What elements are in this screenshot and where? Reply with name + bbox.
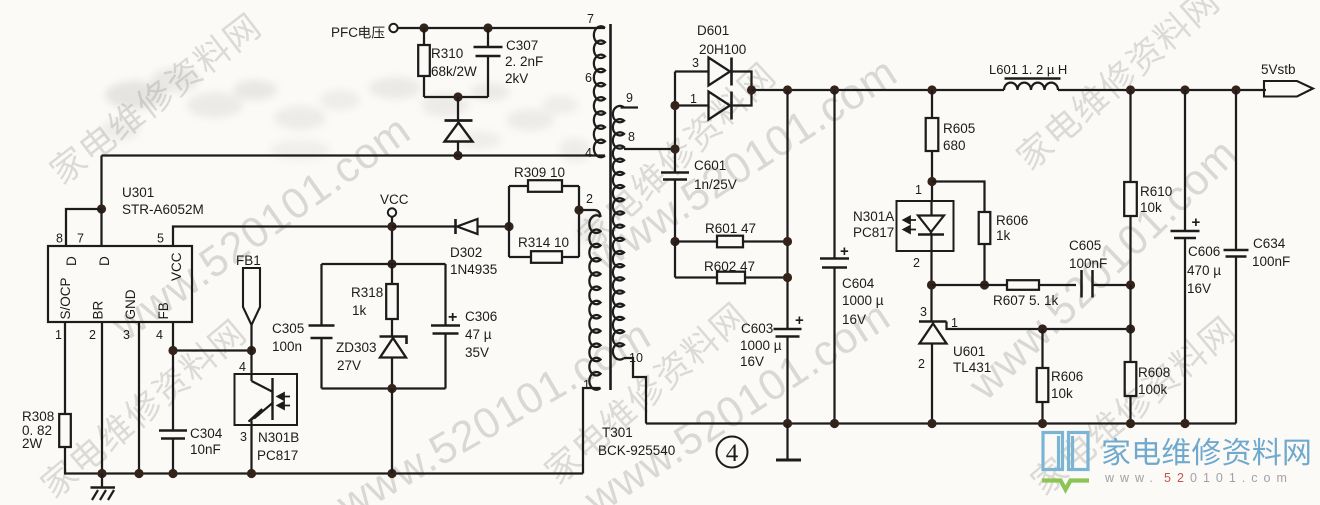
svg-text:R309 10: R309 10 [514, 165, 565, 180]
svg-text:1n/25V: 1n/25V [694, 177, 737, 192]
secondary ground rail [646, 422, 1236, 424]
svg-text:R310: R310 [431, 46, 463, 61]
svg-text:C605: C605 [1069, 238, 1101, 253]
svg-text:16V: 16V [842, 312, 866, 327]
wire network bottom rail [322, 387, 446, 389]
node junction C304 on ground rail [168, 469, 177, 478]
svg-text:R602 47: R602 47 [704, 259, 755, 274]
wire FB node to opto [173, 349, 252, 351]
svg-text:+: + [1192, 214, 1201, 231]
node junction R310 top [419, 23, 428, 32]
svg-text:1N4935: 1N4935 [450, 262, 497, 277]
svg-text:ZD303: ZD303 [336, 340, 377, 355]
logo site name [1103, 438, 1310, 466]
ground (primary, chassis) [101, 474, 103, 488]
resistor R606 10k (lower divider) [1041, 329, 1043, 368]
node junction D601 pin1 [670, 101, 679, 110]
svg-text:10nF: 10nF [190, 442, 221, 457]
svg-text:R606: R606 [996, 213, 1028, 228]
aux winding 2-1 [589, 215, 600, 389]
svg-text:0101.com: 0101.com [1190, 471, 1293, 485]
watermarks (decorative, faint) [46, 10, 263, 187]
svg-text:68k/2W: 68k/2W [431, 64, 477, 79]
svg-text:STR-A6052M: STR-A6052M [122, 202, 204, 217]
svg-text:D: D [97, 256, 112, 266]
svg-text:5Vstb: 5Vstb [1261, 62, 1296, 77]
svg-text:C307: C307 [506, 38, 538, 53]
resistor R308 0.82 2W [59, 414, 71, 447]
svg-text:100nF: 100nF [1252, 254, 1290, 269]
wire C604 branch [830, 85, 839, 94]
wire C603 branch [783, 85, 792, 94]
pin 10 lead [624, 358, 646, 424]
transistor N301B PC817 opto output [250, 351, 252, 382]
resistor R606 1k [932, 182, 985, 213]
capacitor C601 1n/25V [661, 171, 689, 174]
node junction pin7/pin8 [97, 204, 106, 213]
svg-text:7: 7 [77, 232, 84, 246]
svg-text:9: 9 [626, 91, 633, 105]
capacitor C305 100n [320, 264, 322, 326]
wire pin4 FB lead [172, 322, 174, 431]
node junction zener leg on ground rail [387, 469, 396, 478]
wire network top rail [322, 263, 446, 265]
svg-text:1k: 1k [352, 303, 367, 318]
capacitor C604 1000u 16V [820, 257, 849, 260]
svg-text:10k: 10k [1140, 200, 1162, 215]
node junction ref/R608 [1126, 324, 1135, 333]
node junction C307 top [483, 23, 492, 32]
svg-text:www.: www. [1104, 471, 1159, 485]
wire PFC rail to transformer pin 7 [398, 27, 605, 29]
wire R601 left lead [675, 240, 717, 242]
wire pin1 lead [64, 322, 66, 414]
resistor R607 5.1k [1007, 280, 1039, 290]
svg-text:D601: D601 [697, 23, 729, 38]
svg-text:R314 10: R314 10 [518, 235, 569, 250]
svg-text:PFC: PFC [331, 25, 358, 40]
resistor R605 680 [927, 85, 936, 94]
node junction R601 right [783, 237, 792, 246]
svg-text:R605: R605 [943, 121, 975, 136]
svg-text:4: 4 [156, 328, 163, 342]
wire 5V rail [752, 89, 1005, 91]
node junction R601 left [670, 237, 679, 246]
svg-text:U601: U601 [953, 344, 985, 359]
svg-text:27V: 27V [337, 358, 361, 373]
svg-text:U301: U301 [122, 185, 154, 200]
svg-text:VCC: VCC [380, 192, 409, 207]
wire pin3 lead [138, 322, 140, 474]
node junction on drain wire [453, 151, 462, 160]
svg-text:+: + [448, 309, 457, 326]
svg-text:2: 2 [913, 256, 920, 270]
svg-text:2: 2 [586, 192, 593, 206]
logo book icon [1043, 433, 1088, 470]
svg-text:8: 8 [628, 130, 635, 144]
transformer core [609, 24, 612, 390]
svg-text:470 µ: 470 µ [1187, 263, 1221, 278]
primary winding 7-6-4 [594, 26, 605, 157]
pin 8 tap [624, 148, 675, 150]
wire to aux winding pin 2 [579, 210, 601, 217]
node junction opto cathode / feedback row [927, 280, 936, 289]
svg-text:T301: T301 [602, 425, 633, 440]
svg-text:PC817: PC817 [257, 448, 298, 463]
svg-text:1: 1 [55, 328, 62, 342]
svg-text:FB: FB [156, 302, 171, 319]
svg-text:1: 1 [690, 92, 697, 106]
svg-text:R606: R606 [1051, 369, 1083, 384]
wire feedback row [932, 284, 1008, 286]
svg-text:3: 3 [123, 328, 130, 342]
svg-text:2: 2 [918, 357, 925, 371]
node junction ref/R606 10k [1038, 324, 1047, 333]
svg-text:BCK-925540: BCK-925540 [598, 443, 675, 458]
svg-text:4: 4 [239, 360, 246, 374]
svg-text:8: 8 [56, 232, 63, 246]
node junction opto anode / R606 [927, 177, 936, 186]
wire opto to R606/R607 node [930, 251, 932, 322]
svg-text:35V: 35V [465, 345, 489, 360]
svg-text:R318: R318 [351, 285, 383, 300]
node junction C606 on secondary rail [1180, 419, 1189, 428]
svg-text:D302: D302 [450, 245, 482, 260]
svg-text:R308: R308 [22, 409, 54, 424]
svg-text:100n: 100n [272, 339, 302, 354]
svg-text:680: 680 [943, 138, 966, 153]
secondary winding 9-8-10 [621, 106, 639, 108]
svg-text:5: 5 [157, 232, 164, 246]
svg-text:3: 3 [920, 305, 927, 319]
svg-text:1000 µ: 1000 µ [740, 338, 782, 353]
resistor R608 100k [1129, 329, 1131, 362]
svg-text:+: + [795, 312, 804, 329]
svg-text:2W: 2W [22, 436, 43, 451]
resistor network R309/R314 10 ohm [504, 222, 513, 231]
node junction VCC into network [387, 259, 396, 268]
node junction snubber bottom [453, 92, 462, 101]
wire to pin 8 [66, 209, 102, 246]
svg-text:PC817: PC817 [853, 225, 894, 240]
svg-text:C306: C306 [465, 309, 497, 324]
svg-text:R608: R608 [1138, 365, 1170, 380]
resistor R318 1k [391, 264, 393, 284]
svg-text:D: D [64, 256, 79, 266]
wire D601 input left leg [674, 72, 676, 173]
node junction U601 anode on secondary rail [927, 419, 936, 428]
node junction C603 on secondary rail [783, 419, 792, 428]
zener ZD303 27V [380, 337, 407, 345]
svg-text:R610: R610 [1140, 184, 1172, 199]
capacitor C306 47u 35V [444, 264, 446, 326]
svg-text:20H100: 20H100 [699, 42, 746, 57]
node 5V output of rectifier [747, 85, 756, 94]
svg-text:6: 6 [585, 71, 592, 85]
primary ground rail [64, 472, 583, 474]
wire drain rail: transformer pin4 to U301 D pins [102, 154, 606, 156]
svg-text:1000 µ: 1000 µ [842, 293, 884, 308]
node junction network bottom [387, 384, 396, 393]
svg-text:R601 47: R601 47 [705, 221, 756, 236]
svg-text:2kV: 2kV [505, 71, 528, 86]
svg-text:1k: 1k [996, 228, 1011, 243]
node junction R602 right [783, 273, 792, 282]
wire TL431 ref [947, 322, 1131, 330]
resistor R610 10k [1126, 85, 1135, 94]
capacitor C634 100nF [1231, 85, 1240, 94]
svg-text:C634: C634 [1253, 236, 1286, 251]
capacitor C307 2.2nF 2kV [487, 28, 489, 46]
svg-text:C603: C603 [741, 321, 773, 336]
capacitor C304 10nF [159, 429, 187, 432]
node junction opto emitter on ground rail [247, 469, 256, 478]
svg-text:3: 3 [240, 430, 247, 444]
svg-text:16V: 16V [740, 354, 764, 369]
svg-text:FB1: FB1 [236, 253, 261, 268]
svg-text:10: 10 [629, 351, 643, 365]
node junction R606 1k bottom [980, 280, 989, 289]
svg-text:2. 2nF: 2. 2nF [505, 54, 543, 69]
svg-text:N301A: N301A [853, 209, 894, 224]
svg-text:L601 1. 2 µ H: L601 1. 2 µ H [989, 62, 1067, 77]
svg-text:10k: 10k [1051, 386, 1073, 401]
svg-text:TL431: TL431 [953, 360, 991, 375]
diode (snubber clamp, unlabeled) [457, 97, 459, 120]
node junction pin2 on ground rail [97, 469, 106, 478]
wire R310/C307 bottom joining [424, 96, 488, 98]
svg-text:C304: C304 [190, 426, 223, 441]
capacitor C605 100nF [1080, 270, 1083, 298]
wire pin 7 lead [100, 209, 102, 246]
svg-text:S/OCP: S/OCP [58, 277, 73, 319]
opto arrows [904, 217, 917, 224]
ground (secondary) [786, 424, 788, 460]
node junction VCC / D302 [387, 222, 396, 231]
logo url [1104, 471, 1293, 485]
diode D302 1N4935 [392, 225, 455, 227]
svg-text:N301B: N301B [258, 430, 299, 445]
resistor R602 47 [674, 242, 676, 278]
svg-text:C601: C601 [694, 158, 726, 173]
svg-text:100k: 100k [1138, 382, 1168, 397]
node junction winding pin8 [670, 144, 679, 153]
page number circle 4 [717, 437, 748, 468]
svg-text:C606: C606 [1188, 244, 1220, 259]
svg-text:100nF: 100nF [1069, 256, 1107, 271]
svg-text:7: 7 [587, 12, 594, 26]
svg-text:16V: 16V [1187, 281, 1211, 296]
svg-text:+: + [840, 243, 849, 260]
wire pin 5 VCC lead [173, 227, 392, 247]
node junction R608 on secondary rail [1126, 419, 1135, 428]
svg-text:52: 52 [1164, 471, 1190, 485]
svg-text:R607 5. 1k: R607 5. 1k [993, 293, 1059, 308]
svg-text:BR: BR [91, 300, 106, 319]
svg-text:C604: C604 [842, 276, 875, 291]
wire aux pin1 to primary ground [583, 388, 601, 474]
svg-text:47 µ: 47 µ [465, 327, 492, 342]
decorative scan noise [0, 0, 1, 1]
svg-text:1: 1 [915, 183, 922, 197]
node junction feedback row / R610 [1126, 280, 1135, 289]
wire pin2 lead [101, 322, 103, 474]
node junction C604 on secondary rail [830, 419, 839, 428]
svg-text:GND: GND [123, 289, 138, 319]
svg-text:4: 4 [585, 146, 592, 160]
resistor R310 68k/2W [423, 28, 425, 45]
svg-text:3: 3 [692, 56, 699, 70]
node junction pin3 on ground rail [134, 469, 143, 478]
svg-text:VCC: VCC [169, 252, 184, 281]
opto light arrows [278, 393, 291, 400]
wire R610 to ref row [1129, 285, 1131, 329]
svg-text:4: 4 [726, 440, 739, 467]
wire network to ground rail [391, 389, 393, 474]
capacitor C603 1000u 16V [774, 328, 802, 331]
svg-text:C305: C305 [272, 321, 304, 336]
node junction R606 on secondary rail [1038, 419, 1047, 428]
svg-text:2: 2 [89, 328, 96, 342]
capacitor C606 470u 16V [1180, 85, 1189, 94]
